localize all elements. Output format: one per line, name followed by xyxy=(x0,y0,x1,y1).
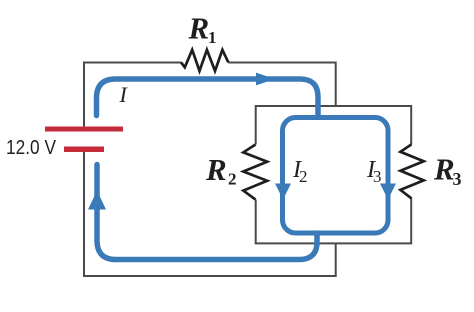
resistor R1 xyxy=(181,50,228,71)
svg-text:12.0 V: 12.0 V xyxy=(6,137,57,159)
svg-text:R: R xyxy=(205,152,227,187)
svg-text:I: I xyxy=(119,82,129,107)
battery B1 (12.0 V source): long plate xyxy=(45,127,123,132)
svg-text:2: 2 xyxy=(299,167,308,186)
label I2 xyxy=(292,157,308,186)
current arrow (upward, return) xyxy=(88,191,106,210)
label I3 xyxy=(366,157,382,186)
label R2 xyxy=(205,152,237,189)
svg-text:3: 3 xyxy=(373,167,382,186)
svg-text:3: 3 xyxy=(453,169,462,189)
current arrow I2 (downward) xyxy=(275,184,291,200)
resistor R3 xyxy=(400,144,423,198)
label R3 xyxy=(433,152,462,190)
svg-text:R: R xyxy=(433,152,455,187)
wire: return current path (blue, branch bottom back to battery) xyxy=(97,165,317,260)
current arrow I3 (downward) xyxy=(380,184,396,200)
wire: outer loop (left, top, right, bottom segments with gaps for battery and R1) xyxy=(84,63,336,277)
wire: inner current loop (I2/I3 circulation) xyxy=(283,118,389,234)
current arrow I (rightward) xyxy=(256,73,275,86)
svg-text:1: 1 xyxy=(208,28,217,47)
battery B1: short plate xyxy=(64,147,104,153)
svg-text:2: 2 xyxy=(228,170,237,189)
label R1 xyxy=(188,11,217,48)
wire: inner parallel branch box (white-filled, covers outer right wire) xyxy=(256,106,412,243)
wire: current path I (blue, battery top to parallel branch) xyxy=(97,79,319,116)
svg-text:R: R xyxy=(188,11,210,46)
resistor R2 xyxy=(243,145,267,200)
